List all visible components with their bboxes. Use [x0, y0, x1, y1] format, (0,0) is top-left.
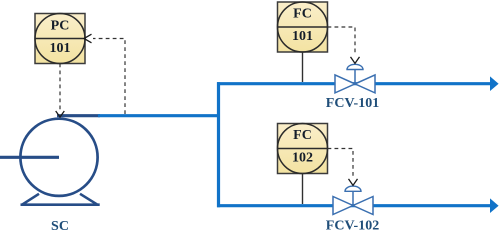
svg-text:SC: SC — [51, 219, 69, 234]
wire: branch vertical — [217, 82, 220, 207]
svg-text:FC: FC — [293, 128, 312, 143]
instrument FC-102: square — [278, 124, 328, 174]
instrument FC-101: circle — [278, 2, 328, 52]
valve FCV-102: stem — [352, 191, 354, 205]
pump SC: body circle — [20, 119, 97, 196]
valve FCV-101: bowtie — [335, 75, 375, 93]
svg-text:PC: PC — [51, 19, 70, 34]
wire: process line pump to branch — [98, 114, 217, 117]
arrow: into PC-101 — [84, 34, 92, 43]
valve FCV-102: actuator dome — [345, 186, 361, 191]
valve FCV-102: bowtie — [333, 197, 373, 215]
svg-text:FCV-101: FCV-101 — [326, 96, 379, 111]
signal: process line to PC-101 (dashed) — [93, 39, 125, 115]
wire: upper branch line — [217, 82, 491, 85]
pump SC: stand — [21, 194, 100, 205]
instrument FC-102: mid line — [278, 148, 328, 150]
instrument PC-101: mid line — [35, 38, 85, 40]
arrow: onto FCV-101 actuator — [351, 57, 360, 64]
wire: lower branch line — [217, 204, 491, 207]
svg-text:101: 101 — [50, 41, 71, 56]
signal: PC-101 to pump (dashed) — [59, 64, 61, 110]
signal: FC-102 to FCV-102 (dashed) — [328, 149, 354, 178]
instrument PC-101: circle — [35, 14, 85, 64]
valve FCV-101: stem — [354, 70, 356, 84]
svg-text:102: 102 — [292, 151, 313, 166]
arrow: upper line end — [490, 76, 499, 91]
instrument FC-101: mid line — [278, 26, 328, 28]
wire: pump discharge line (dark) — [57, 114, 100, 117]
arrow: lower line end — [490, 198, 499, 213]
arrow: onto FCV-102 actuator — [349, 179, 358, 186]
svg-text:101: 101 — [292, 29, 313, 44]
instrument FC-101: square — [278, 2, 328, 52]
pump SC: suction line — [0, 156, 59, 159]
instrument FC-102: circle — [278, 124, 328, 174]
wire: FC-101 process tap — [302, 52, 304, 82]
instrument PC-101: square — [35, 14, 85, 64]
svg-text:FCV-102: FCV-102 — [326, 219, 379, 234]
signal: FC-101 to FCV-101 (dashed) — [328, 27, 356, 56]
arrow: onto pump — [56, 111, 65, 117]
wire: FC-102 process tap — [302, 174, 304, 205]
svg-text:FC: FC — [293, 7, 312, 22]
valve FCV-101: actuator dome — [347, 64, 363, 69]
